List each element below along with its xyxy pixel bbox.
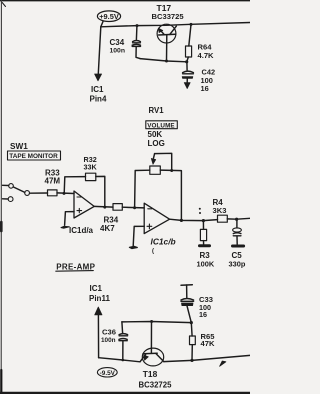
potentiometer RV1 xyxy=(150,153,172,174)
wire pin11 down xyxy=(97,315,99,358)
node junction base T17 xyxy=(165,60,168,63)
capacitor C36 xyxy=(119,322,128,361)
wire feedback loop op-amp1 xyxy=(64,177,85,194)
resistor R4 xyxy=(218,215,228,222)
svg-text:R64: R64 xyxy=(198,43,213,52)
wire pole to R33 xyxy=(30,192,48,194)
svg-text:330p: 330p xyxy=(229,259,246,268)
svg-text:R34: R34 xyxy=(104,215,119,224)
potentiometer RV1 volume box xyxy=(146,121,178,130)
resistor R64 xyxy=(186,24,192,61)
svg-text:PRE-AMP: PRE-AMP xyxy=(56,262,95,271)
node junction C36 bottom xyxy=(122,359,125,362)
node IC1 Pin11 label xyxy=(89,284,110,303)
svg-text:IC1c/b: IC1c/b xyxy=(151,237,176,247)
node junction RV1 right-output xyxy=(180,219,183,222)
svg-text:4.7K: 4.7K xyxy=(198,51,215,60)
node +9.5V supply oval xyxy=(97,11,120,22)
node junction wiper xyxy=(170,169,173,172)
svg-text:16: 16 xyxy=(199,310,207,319)
wire op-amp2 plus to ground xyxy=(133,226,144,246)
node junction R65 bottom xyxy=(190,359,193,362)
wire supply rail xyxy=(101,22,250,27)
resistor R65 xyxy=(190,323,196,361)
node colon mark xyxy=(199,208,201,214)
svg-text:100n: 100n xyxy=(110,48,126,55)
svg-text:50K: 50K xyxy=(148,130,163,139)
svg-text:(: ( xyxy=(152,249,154,255)
svg-text:C36: C36 xyxy=(102,327,116,336)
ground op-amp2 plus xyxy=(129,246,137,248)
svg-text:16: 16 xyxy=(201,84,209,93)
op-amp IC1d/a xyxy=(74,191,94,218)
node arrow IC1 Pin4 xyxy=(95,74,102,81)
wire C34 to T18 base node xyxy=(140,59,187,62)
svg-text:IC1: IC1 xyxy=(91,85,104,94)
border bottom xyxy=(0,392,250,394)
switch SW1 pole circle xyxy=(25,191,30,196)
wire R4 to edge xyxy=(227,217,250,220)
node arrow mark on rail xyxy=(220,361,226,366)
svg-text:C34: C34 xyxy=(110,38,125,47)
wire op-amp1 output xyxy=(94,205,113,208)
ground C5 xyxy=(233,245,244,248)
transistor T18 xyxy=(140,322,164,366)
svg-text:47K: 47K xyxy=(201,339,215,348)
node junction RV1 left xyxy=(133,206,136,209)
wire op-amp1 plus to ground xyxy=(65,212,74,226)
svg-text:33K: 33K xyxy=(84,162,98,171)
wire output rail xyxy=(170,219,218,220)
svg-text:BC33725: BC33725 xyxy=(152,12,185,21)
node junction input op-amp1 xyxy=(63,192,66,195)
svg-text:-9.5V: -9.5V xyxy=(100,370,116,377)
svg-text:Pin4: Pin4 xyxy=(90,95,107,104)
svg-text:IC1d/a: IC1d/a xyxy=(69,226,94,235)
svg-text:4K7: 4K7 xyxy=(100,224,115,233)
capacitor C5 xyxy=(233,219,242,244)
wire RV1 left to input node xyxy=(135,170,150,208)
capacitor C42 xyxy=(182,62,193,89)
node junction R64-C42 xyxy=(185,60,188,63)
wire R34 to op-amp2 xyxy=(122,206,144,209)
node -9.5V oval xyxy=(97,368,117,377)
op-amp IC1c/b xyxy=(144,203,169,233)
node junction R3 tap xyxy=(202,219,205,222)
wire C36 to base node xyxy=(122,322,191,323)
wire feedback to output xyxy=(96,176,105,207)
wire bottom rail left xyxy=(99,358,140,362)
node junction C5 tap xyxy=(235,218,238,221)
svg-text:VOLUME: VOLUME xyxy=(147,122,175,129)
wire input top xyxy=(3,184,9,186)
svg-text:47M: 47M xyxy=(45,177,61,186)
potentiometer RV1 labels xyxy=(148,106,165,148)
wire input bottom xyxy=(3,198,9,200)
svg-text:IC1: IC1 xyxy=(90,284,103,293)
node PRE-AMP label xyxy=(56,262,95,271)
switch SW1 label xyxy=(10,142,28,151)
wire bottom rail right xyxy=(164,355,250,361)
wire to IC1 pin4 xyxy=(98,27,101,74)
wire RV1 right to output xyxy=(160,170,181,220)
svg-text:3K3: 3K3 xyxy=(213,206,227,215)
ground R3 xyxy=(200,244,210,247)
node junction rail-R64 xyxy=(190,23,193,26)
svg-text:+9.5V: +9.5V xyxy=(99,12,119,21)
svg-text:LOG: LOG xyxy=(148,139,165,148)
transistor T17 xyxy=(157,24,176,61)
switch SW1 arm xyxy=(13,187,24,192)
svg-text:TAPE MONITOR: TAPE MONITOR xyxy=(9,153,58,160)
resistor R3 xyxy=(200,221,206,245)
svg-text:T18: T18 xyxy=(143,369,158,379)
switch SW1 contact 2 xyxy=(8,197,13,202)
switch SW1 contact 1 xyxy=(9,184,14,189)
capacitor C34 xyxy=(132,27,140,59)
svg-text:RV1: RV1 xyxy=(149,106,165,115)
resistor R32 xyxy=(86,173,96,180)
ground op-amp1 plus xyxy=(61,226,69,228)
svg-text:BC32725: BC32725 xyxy=(139,380,173,389)
node junction rail-C34 xyxy=(136,24,139,27)
svg-text:Pin11: Pin11 xyxy=(89,294,110,303)
node arrow IC1 Pin11 xyxy=(95,307,102,315)
switch SW1 tape monitor box xyxy=(8,151,61,160)
svg-text:100K: 100K xyxy=(197,259,215,268)
border top xyxy=(0,0,250,2)
node junction output-feedback xyxy=(103,206,106,209)
svg-text:100n: 100n xyxy=(101,337,116,344)
node junction C33-R65 xyxy=(190,321,193,324)
border left xyxy=(0,0,2,394)
capacitor C33 xyxy=(181,285,194,323)
svg-text:SW1: SW1 xyxy=(10,142,28,151)
resistor R33 xyxy=(48,190,75,196)
node junction T18 base xyxy=(150,320,153,323)
resistor R34 xyxy=(113,204,122,211)
